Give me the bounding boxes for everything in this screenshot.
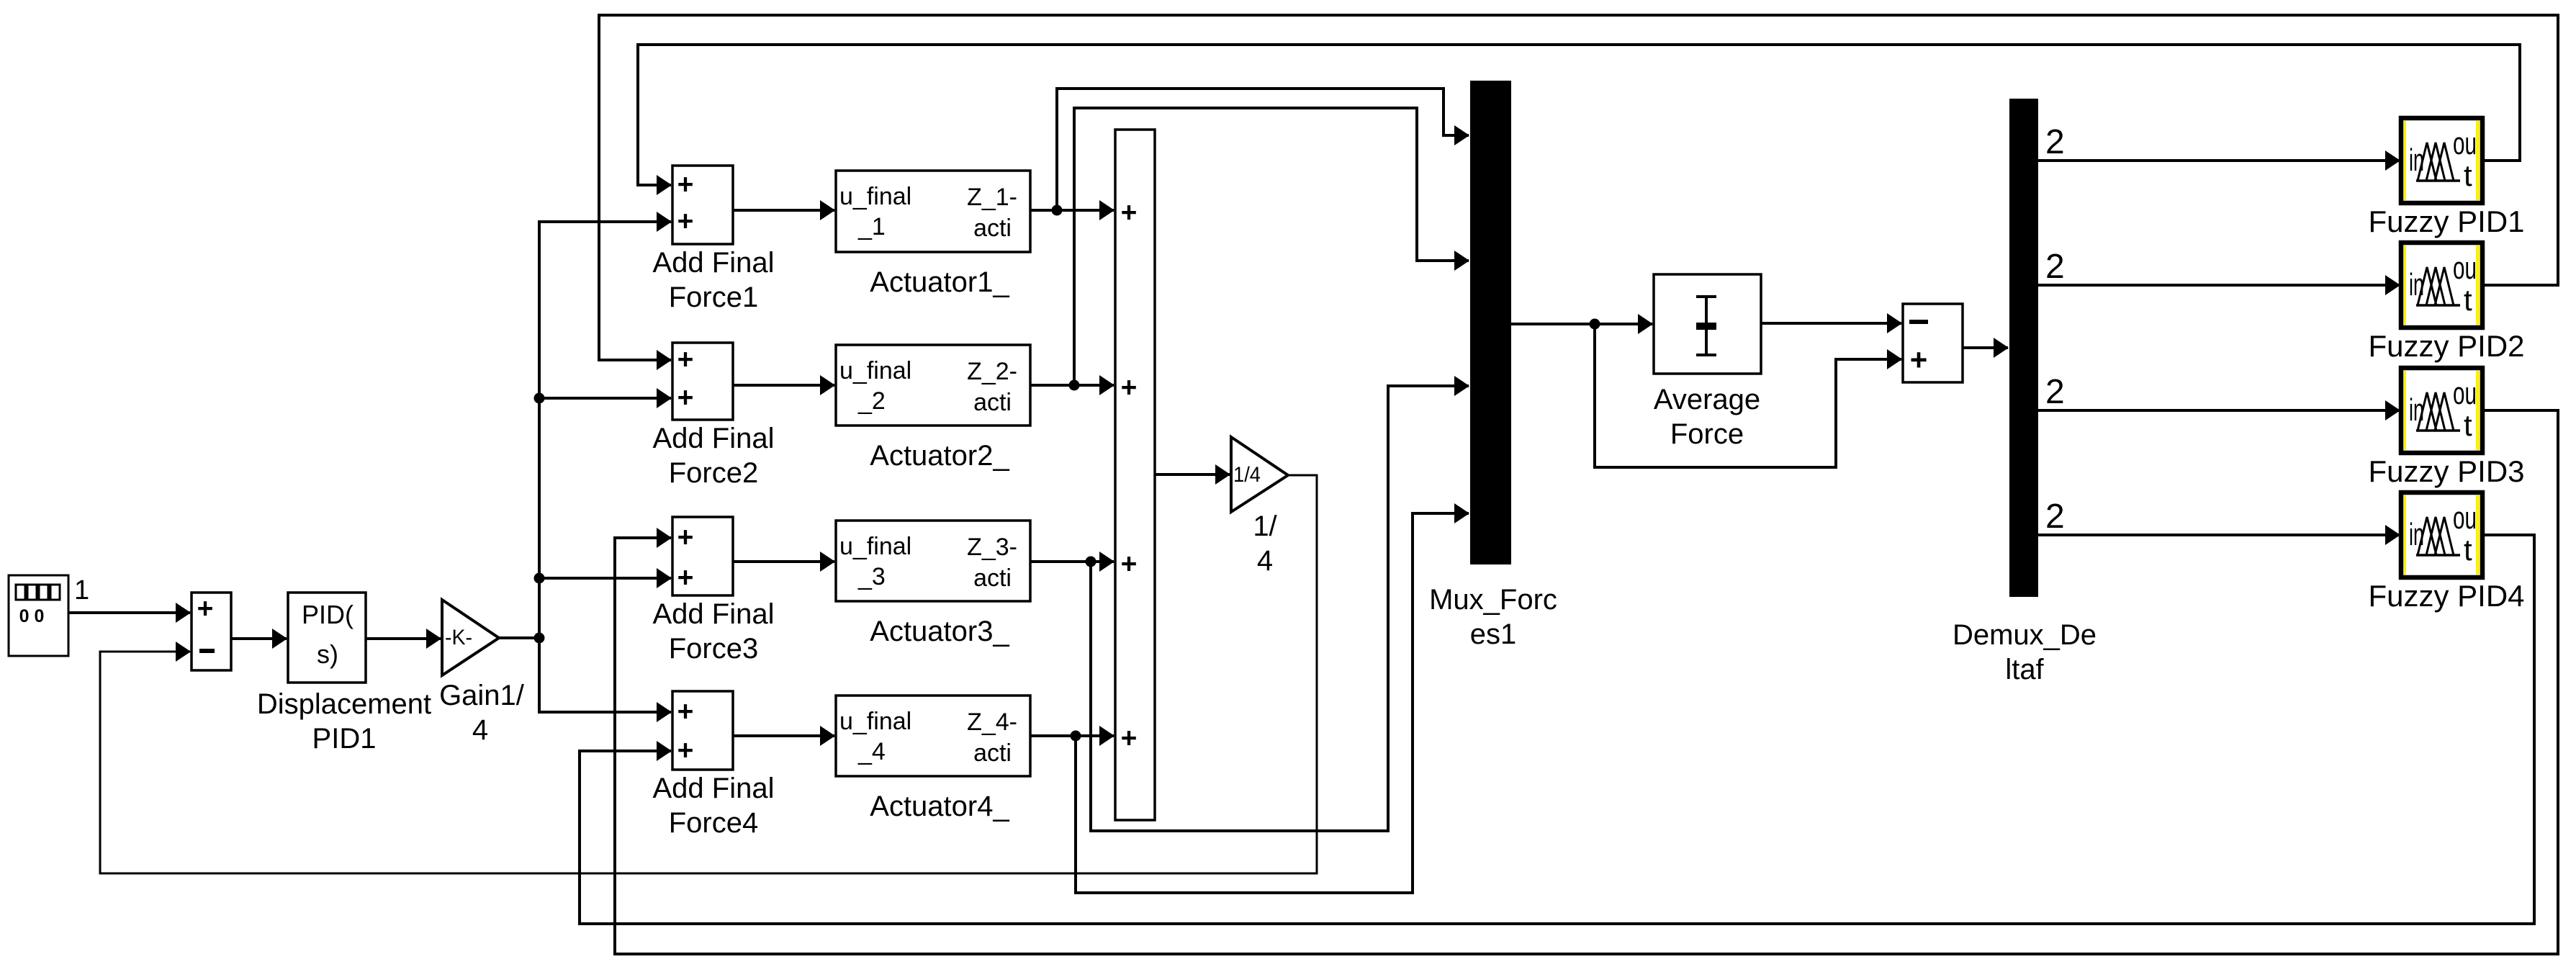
wire Fuzzy PID1 feedback to Add Final Force1 in1 — [638, 45, 2520, 185]
wire Actuator3 to sum of forces — [1030, 560, 1114, 563]
svg-text:ltaf: ltaf — [2005, 654, 2044, 685]
label Gain1/4 — [439, 680, 525, 746]
block Fuzzy PID2 — [2401, 243, 2482, 328]
svg-text:+: + — [677, 696, 694, 727]
sum block Add Final Force2 — [672, 343, 733, 420]
svg-text:+: + — [677, 522, 694, 553]
label Actuator4_ — [870, 791, 1009, 822]
block Fuzzy PID3 — [2401, 368, 2482, 453]
wire sum to PID — [231, 637, 287, 640]
svg-text:ou: ou — [2453, 126, 2477, 161]
svg-text:Force: Force — [1670, 418, 1744, 450]
svg-text:Force2: Force2 — [669, 457, 759, 489]
svg-text:ou: ou — [2453, 376, 2477, 411]
node Actuator1 output junction — [1052, 205, 1063, 216]
node Actuator3 output junction — [1086, 557, 1096, 567]
svg-text:acti: acti — [973, 215, 1012, 242]
svg-text:es1: es1 — [1470, 618, 1517, 650]
wire Add Final Force2 to Actuator2 — [733, 384, 834, 387]
label Displacement PID1 — [257, 688, 431, 755]
block Actuator3 — [836, 521, 1030, 601]
wire Gain1/4 output to distribution riser — [499, 636, 539, 639]
svg-text:_1: _1 — [857, 213, 886, 240]
svg-text:t: t — [2464, 533, 2472, 567]
svg-text:ou: ou — [2453, 500, 2477, 536]
svg-text:+: + — [677, 735, 694, 766]
label Demux_Deltaf — [1953, 619, 2097, 685]
node gain output junction — [534, 633, 545, 644]
svg-text:Actuator4_: Actuator4_ — [870, 791, 1009, 822]
svg-text:Demux_De: Demux_De — [1953, 619, 2097, 651]
svg-text:+: + — [677, 206, 694, 237]
svg-text:acti: acti — [973, 739, 1012, 767]
svg-text:in: in — [2409, 267, 2424, 302]
label 2 on demux output 3 — [2045, 373, 2065, 411]
sum block Add Final Force1 — [672, 166, 733, 244]
svg-text:t: t — [2464, 283, 2472, 317]
label Actuator3_ — [870, 616, 1009, 647]
svg-text:+: + — [1910, 343, 1928, 377]
label Mux_Forces1 — [1429, 584, 1557, 650]
svg-text:in: in — [2409, 517, 2424, 552]
svg-text:Force3: Force3 — [669, 633, 759, 665]
svg-text:Add Final: Add Final — [653, 773, 775, 804]
label 1 output port — [74, 575, 89, 606]
wire force sum to Demux_Deltaf — [1963, 346, 2008, 349]
svg-text:Actuator3_: Actuator3_ — [870, 616, 1009, 647]
svg-text:-K-: -K- — [445, 626, 472, 649]
wire Fuzzy PID4 feedback to Add Final Force4 in2 — [580, 535, 2534, 924]
svg-text:2: 2 — [2045, 498, 2065, 536]
svg-text:t: t — [2464, 158, 2472, 192]
svg-text:1/4: 1/4 — [1233, 463, 1261, 487]
wire Add Final Force3 to Actuator3 — [733, 560, 834, 563]
sum block Add Final Force4 — [672, 691, 733, 770]
svg-text:in: in — [2409, 143, 2424, 178]
block Average Force — [1654, 274, 1761, 374]
svg-text:acti: acti — [973, 564, 1012, 592]
wire branch down to Add Final Force4 in1 — [539, 638, 671, 712]
svg-text:u_final: u_final — [839, 357, 911, 384]
wire Fuzzy PID3 feedback to Add Final Force3 in1 — [615, 410, 2558, 954]
svg-text:u_final: u_final — [839, 533, 911, 560]
label 2 on demux output 1 — [2045, 123, 2065, 161]
sum block Add Final Force3 — [672, 517, 733, 595]
svg-text:Fuzzy PID4: Fuzzy PID4 — [2368, 579, 2524, 613]
wire Actuator4 branch to Mux in4 — [1076, 513, 1469, 893]
wire Actuator1 branch to Mux in1 — [1057, 89, 1469, 210]
node Actuator4 output junction — [1071, 731, 1081, 742]
label Add Final Force4 — [653, 773, 775, 839]
svg-text:Displacement: Displacement — [257, 688, 431, 720]
svg-text:Actuator1_: Actuator1_ — [870, 266, 1009, 298]
svg-text:u_final: u_final — [839, 708, 911, 735]
svg-text:1/: 1/ — [1253, 510, 1277, 542]
wire PID to Gain1/4 — [366, 637, 441, 640]
block Actuator2 — [836, 345, 1030, 426]
svg-text:Fuzzy PID3: Fuzzy PID3 — [2368, 454, 2524, 488]
svg-text:+: + — [677, 344, 694, 375]
svg-text:PID1: PID1 — [312, 723, 377, 755]
wire Demux_Deltaf out2 to Fuzzy PID2 — [2038, 284, 2400, 287]
wire quarter-gain average feedback to sum minus input — [100, 475, 1317, 873]
gain block Gain1/4 (-K-) — [442, 600, 499, 675]
sum block of four actuator forces — [1115, 130, 1155, 820]
wire riser to Add Final Force1 in2 — [539, 222, 671, 638]
svg-text:Fuzzy PID2: Fuzzy PID2 — [2368, 329, 2524, 363]
wire Demux_Deltaf out1 to Fuzzy PID1 — [2038, 159, 2400, 162]
wire Actuator1 to sum of forces — [1030, 209, 1114, 212]
svg-text:4: 4 — [1257, 545, 1273, 577]
svg-text:+: + — [677, 562, 694, 593]
svg-text:Add Final: Add Final — [653, 247, 775, 279]
svg-text:Actuator2_: Actuator2_ — [870, 440, 1009, 472]
svg-text:Average: Average — [1654, 384, 1760, 415]
node riser junction row3 — [534, 573, 545, 584]
sum block Displacement error (+/-) — [192, 593, 231, 670]
svg-text:Force1: Force1 — [669, 282, 759, 313]
label Average Force — [1654, 384, 1760, 450]
gain block 1/4 — [1231, 437, 1288, 512]
svg-text:Add Final: Add Final — [653, 423, 775, 454]
svg-text:Z_2-: Z_2- — [967, 358, 1017, 385]
label Fuzzy PID1 — [2368, 204, 2524, 238]
block Displacement PID1 — [288, 593, 366, 683]
sum block force difference (-/+) — [1903, 304, 1963, 382]
block Fuzzy PID4 — [2401, 492, 2482, 577]
svg-text:acti: acti — [973, 389, 1012, 416]
label Fuzzy PID3 — [2368, 454, 2524, 488]
wire Signal Builder to Displacement sum — [68, 611, 190, 614]
svg-text:in: in — [2409, 392, 2424, 428]
mux block Mux_Forces1 — [1470, 81, 1511, 564]
svg-text:+: + — [677, 169, 694, 200]
wire Actuator2 to sum of forces — [1030, 384, 1114, 387]
svg-text:u_final: u_final — [839, 183, 911, 210]
label 2 on demux output 2 — [2045, 248, 2065, 286]
svg-text:2: 2 — [2045, 373, 2065, 411]
svg-text:Force4: Force4 — [669, 807, 759, 839]
wire Average Force to force sum minus input — [1761, 322, 1901, 325]
label Actuator2_ — [870, 440, 1009, 472]
svg-text:PID(: PID( — [302, 600, 353, 629]
label Add Final Force3 — [653, 598, 775, 665]
svg-text:Add Final: Add Final — [653, 598, 775, 630]
svg-text:+: + — [1121, 549, 1138, 580]
svg-text:Z_3-: Z_3- — [967, 534, 1017, 561]
wire branch to Add Final Force2 in2 — [539, 397, 671, 400]
block Fuzzy PID1 — [2401, 118, 2482, 203]
wire Fuzzy PID2 feedback to Add Final Force2 in1 — [599, 15, 2558, 360]
node mux output junction — [1590, 319, 1600, 330]
demux block Demux_Deltaf — [2009, 99, 2038, 597]
svg-text:Mux_Forc: Mux_Forc — [1429, 584, 1557, 616]
svg-text:Gain1/: Gain1/ — [439, 680, 525, 711]
label Add Final Force2 — [653, 423, 775, 489]
label 1/4 — [1253, 510, 1277, 577]
label 2 on demux output 4 — [2045, 498, 2065, 536]
svg-text:Fuzzy PID1: Fuzzy PID1 — [2368, 204, 2524, 238]
wire Add Final Force1 to Actuator1 — [733, 209, 834, 212]
wire branch to Add Final Force3 in2 — [539, 577, 671, 580]
svg-text:_2: _2 — [857, 387, 886, 415]
wire Mux_Forces1 output to Average Force — [1511, 323, 1652, 325]
wire Add Final Force4 to Actuator4 — [733, 734, 834, 737]
svg-text:+: + — [1121, 723, 1138, 754]
svg-text:Z_4-: Z_4- — [967, 708, 1017, 736]
label Actuator1_ — [870, 266, 1009, 298]
wire Actuator4 to sum of forces — [1030, 734, 1114, 737]
svg-text:1: 1 — [74, 575, 89, 606]
node riser junction row2 — [534, 393, 545, 404]
svg-text:_4: _4 — [857, 738, 886, 765]
svg-text:+: + — [1121, 197, 1138, 228]
svg-text:+: + — [1121, 372, 1138, 403]
wire sum of forces to quarter gain — [1155, 473, 1230, 476]
wire Actuator3 branch to Mux in3 — [1091, 386, 1469, 831]
svg-text:Z_1-: Z_1- — [967, 184, 1017, 211]
svg-text:4: 4 — [472, 714, 488, 746]
label Fuzzy PID2 — [2368, 329, 2524, 363]
wire mux output branch to force sum plus input — [1595, 324, 1901, 467]
svg-text:+: + — [197, 593, 214, 624]
svg-text:s): s) — [317, 639, 338, 669]
svg-text:ou: ou — [2453, 251, 2477, 286]
svg-text:0 0: 0 0 — [19, 606, 45, 626]
source block Signal Builder — [9, 575, 68, 656]
svg-text:2: 2 — [2045, 248, 2065, 286]
block Actuator4 — [836, 696, 1030, 776]
svg-text:+: + — [677, 382, 694, 413]
node Actuator2 output junction — [1069, 380, 1080, 391]
wire Demux_Deltaf out4 to Fuzzy PID4 — [2038, 534, 2400, 536]
label Add Final Force1 — [653, 247, 775, 313]
block Actuator1 — [836, 171, 1030, 252]
wire Demux_Deltaf out3 to Fuzzy PID3 — [2038, 409, 2400, 412]
wire Actuator2 branch to Mux in2 — [1074, 108, 1469, 385]
svg-text:t: t — [2464, 408, 2472, 442]
svg-text:_3: _3 — [857, 563, 886, 590]
svg-text:2: 2 — [2045, 123, 2065, 161]
label Fuzzy PID4 — [2368, 579, 2524, 613]
